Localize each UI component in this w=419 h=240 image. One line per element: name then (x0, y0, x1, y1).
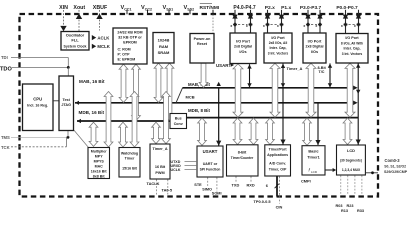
USART block (197, 146, 223, 177)
svg-text:TCK: TCK (1, 145, 10, 150)
svg-text:TACLK: TACLK (147, 181, 160, 186)
pin CIN (278, 177, 280, 204)
svg-text:1024B: 1024B (158, 37, 170, 42)
I/O port P3 block (303, 33, 326, 63)
wire Basic Timer1 to MDB8 (hollow arrow) (303, 118, 312, 145)
bus diagonal MAB16 to MAB4 (176, 88, 183, 103)
svg-text:Timer/Port: Timer/Port (269, 148, 288, 152)
svg-text:8 I/Os, All With: 8 I/Os, All With (341, 41, 363, 45)
Timer_A block (150, 144, 170, 179)
svg-text:Reset: Reset (197, 42, 208, 46)
svg-text:MDB, 8 Bit: MDB, 8 Bit (188, 108, 210, 113)
wire MCB to Basic Timer1 (dark line) (317, 103, 319, 145)
I/O port P1/P2 block (264, 33, 292, 63)
wire USART to MDB8 (hollow arrow) (198, 118, 207, 145)
bus MDB 16-bit line (77, 120, 170, 122)
svg-text:Multiplier: Multiplier (91, 150, 108, 154)
wire LCD to MDB8 (hollow arrow) (343, 118, 352, 145)
LCD R lines (340, 176, 342, 196)
svg-text:SS1: SS1 (166, 7, 173, 11)
svg-text:16 Bit: 16 Bit (155, 165, 166, 169)
svg-text:TDI: TDI (1, 55, 8, 60)
svg-text:UART or: UART or (203, 162, 218, 166)
svg-text:R03: R03 (336, 204, 343, 208)
svg-text:TA0-5: TA0-5 (162, 187, 173, 192)
pin TACLK (155, 180, 157, 196)
svg-text:FLL: FLL (71, 37, 79, 42)
Test JTAG box (59, 76, 74, 131)
svg-text:Incl. 16 Reg.: Incl. 16 Reg. (27, 103, 48, 107)
wire port P0 box to MDB8 (hollow arrow) (345, 63, 355, 117)
svg-text:TXD: TXD (232, 183, 240, 188)
I/O port P0 block (336, 34, 368, 64)
pin SIMO (207, 178, 209, 188)
wire Watchdog to MAB16 (hollow arrow) (130, 92, 139, 148)
svg-text:P: OTP: P: OTP (118, 52, 131, 56)
wire POR to MAB4 (hollow arrow) (199, 63, 208, 87)
svg-text:SRAM: SRAM (158, 50, 170, 55)
oscillator FLL system clock block (61, 32, 89, 51)
svg-text:SOMI: SOMI (212, 192, 222, 196)
svg-text:x: x (341, 24, 343, 28)
svg-text:ACLK: ACLK (97, 35, 110, 40)
svg-text:MDB, 16 Bit: MDB, 16 Bit (79, 110, 105, 115)
svg-text:JTAG: JTAG (61, 103, 71, 107)
svg-text:Timer_A: Timer_A (152, 147, 167, 151)
svg-text:SS2: SS2 (187, 7, 194, 11)
svg-text:C: ROM: C: ROM (118, 47, 131, 51)
svg-text:CC2: CC2 (145, 7, 152, 11)
svg-text:I/O Port: I/O Port (308, 39, 322, 43)
MCLK output (92, 44, 96, 49)
svg-text:SPI Function: SPI Function (200, 167, 221, 171)
svg-text:T/C: T/C (319, 70, 325, 74)
svg-text:TDO: TDO (0, 66, 12, 72)
wire fLCD to LCD (326, 169, 334, 171)
wire bus to USART (dark line with arrows) (218, 88, 220, 146)
svg-text:2x8 Digital: 2x8 Digital (234, 45, 252, 49)
svg-text:1,2,3,4 MUX: 1,2,3,4 MUX (342, 168, 361, 172)
svg-text:MAC: MAC (95, 165, 104, 169)
svg-text:Timer1: Timer1 (307, 155, 319, 159)
svg-text:P2.x: P2.x (265, 5, 275, 11)
wire port P4 box to MAB4 (dark double arrow) (249, 64, 251, 87)
svg-text:P0.0-P0.7: P0.0-P0.7 (336, 5, 358, 11)
svg-text:P3.0-P3.7: P3.0-P3.7 (300, 5, 322, 11)
svg-text:3 Int. Vectors: 3 Int. Vectors (342, 52, 363, 56)
svg-text:2x8 Digital: 2x8 Digital (306, 45, 324, 49)
svg-text:Timer, O/P: Timer, O/P (269, 168, 287, 172)
svg-text:RAM: RAM (159, 44, 169, 49)
svg-text:15/16 Bit: 15/16 Bit (122, 167, 138, 171)
svg-text:Inter. Cap,: Inter. Cap, (270, 46, 287, 50)
wire LCD segment outputs to border (366, 172, 378, 174)
svg-text:R33: R33 (357, 209, 364, 213)
svg-text:LCD: LCD (311, 170, 318, 174)
wire Watchdog to MDB16 (hollow arrow) (119, 122, 128, 147)
svg-text:P4.0-P4.7: P4.0-P4.7 (233, 5, 255, 11)
pin SOMI (216, 178, 218, 192)
wire Timer_A to MDB16 (hollow arrow) (152, 122, 161, 143)
node TMS junction (67, 136, 70, 139)
wire port P1/P2 box to Timer/Port (dark line with arrows) (282, 64, 284, 145)
wire port P3 box to MDB8 (hollow arrow) (306, 63, 316, 117)
svg-text:A/D Conv.: A/D Conv. (269, 161, 286, 165)
svg-text:I/Os: I/Os (239, 50, 246, 54)
svg-text:RST/NMI: RST/NMI (200, 5, 220, 11)
wire RAM to MAB (hollow arrow) (154, 63, 163, 102)
svg-text:Basic: Basic (308, 149, 318, 153)
svg-text:CC1: CC1 (124, 7, 131, 11)
svg-text:P1.x: P1.x (281, 5, 291, 11)
svg-text:(30 Segments): (30 Segments) (340, 159, 362, 163)
svg-text:24/32 KB ROM: 24/32 KB ROM (117, 30, 142, 34)
svg-text:I/O Port: I/O Port (345, 36, 359, 40)
node TDO junction (67, 66, 70, 69)
svg-text:Conv: Conv (174, 122, 183, 126)
svg-text:x: x (263, 24, 265, 28)
svg-text:16x16 Bit: 16x16 Bit (91, 170, 108, 174)
wire port P1/P2 box to MDB8 (hollow arrow) (270, 63, 280, 117)
svg-text:RXD: RXD (247, 183, 255, 188)
svg-text:R23: R23 (347, 204, 354, 208)
svg-text:System Clock: System Clock (64, 44, 87, 48)
wire port P3 box to MAB4 (dark double arrow) (329, 63, 331, 87)
wire port P0 box to LCD (dark line with arrows) (357, 63, 359, 144)
svg-text:x: x (315, 24, 317, 28)
node segment output junction (371, 171, 374, 174)
svg-text:CMPI: CMPI (301, 178, 311, 183)
svg-text:Test: Test (63, 98, 71, 102)
I/O port P4 block (230, 33, 256, 64)
basic timer1 block (302, 146, 325, 175)
svg-text:SIMO: SIMO (202, 187, 212, 191)
wire Multiplier to MDB16 (hollow arrow) (89, 122, 98, 146)
wire ROM to MAB (hollow arrow) (119, 64, 128, 102)
power-on reset block (190, 34, 214, 64)
RAM block (153, 33, 174, 64)
svg-text:8-Bit: 8-Bit (238, 150, 247, 154)
wire 8-bit Timer/Counter to MDB8 (hollow arrow) right (249, 118, 258, 145)
svg-text:STE: STE (194, 183, 202, 187)
svg-text:TP0.0-0.5: TP0.0-0.5 (254, 199, 272, 204)
outer dashed border (device boundary) (20, 14, 379, 197)
svg-text:CPU: CPU (33, 97, 42, 102)
svg-text:x: x (354, 24, 356, 28)
svg-text:EPROM: EPROM (123, 41, 137, 45)
wire port P4 box to MDB8 (hollow arrow) (233, 64, 243, 117)
wire JTAG to Multiplier diagonal (74, 130, 88, 147)
svg-text:Timer: Timer (125, 157, 135, 161)
timer/port block (265, 145, 291, 176)
wire Timer_A to MAB16 (hollow arrow) (162, 92, 171, 144)
wire 8-bit Timer/Counter to MDB8 (hollow arrow) left (233, 118, 242, 145)
svg-text:Applications: Applications (267, 153, 288, 157)
svg-text:Watchdog: Watchdog (121, 151, 138, 155)
svg-text:I/O Port: I/O Port (236, 39, 250, 43)
svg-text:x: x (303, 24, 305, 28)
wire Timer/Port to MDB8 (hollow arrow) (266, 118, 275, 145)
svg-text:MCB: MCB (186, 95, 195, 100)
bus MAB 16-bit / MCB horizontal line (75, 102, 355, 104)
svg-text:USART: USART (216, 63, 231, 68)
svg-text:Com0-3: Com0-3 (385, 158, 401, 163)
svg-text:S29/O29/CMP: S29/O29/CMP (384, 170, 408, 174)
svg-text:I/O Port: I/O Port (271, 36, 285, 40)
pin TXD (235, 177, 237, 183)
svg-text:6: 6 (266, 183, 269, 188)
svg-text:x: x (246, 24, 248, 28)
svg-text:PWM: PWM (155, 171, 164, 175)
svg-text:Timer/Counter: Timer/Counter (231, 156, 254, 160)
CPU box (23, 84, 54, 131)
svg-text:Inter. Cap,: Inter. Cap, (344, 47, 361, 51)
bus converter block (170, 114, 187, 129)
watchdog timer block (119, 148, 140, 178)
svg-text:E: EPROM: E: EPROM (118, 58, 136, 62)
bus MDB 8-bit line (187, 117, 359, 119)
svg-text:Bus: Bus (175, 117, 182, 121)
svg-text:Timer_A: Timer_A (287, 66, 303, 71)
wire RAM to MDB (hollow arrow) (165, 63, 174, 120)
svg-text:USART: USART (203, 149, 218, 154)
wire timer/port to pins (6) (276, 177, 278, 197)
svg-text:MAB, 16 Bit: MAB, 16 Bit (79, 79, 105, 84)
ROM block (113, 28, 147, 64)
wire CPU to JTAG (53, 100, 59, 102)
svg-text:Power-on: Power-on (194, 37, 212, 41)
svg-text:x: x (277, 24, 279, 28)
LCD block (337, 145, 366, 175)
svg-text:MPY: MPY (95, 155, 103, 159)
bus MAB 4-bit line (183, 87, 354, 89)
wire ROM to MDB (hollow arrow) (132, 64, 141, 120)
wire Multiplier to MAB16 (hollow arrow) (104, 92, 113, 148)
svg-text:LCD: LCD (347, 148, 355, 153)
svg-text:MCLK: MCLK (97, 44, 110, 49)
svg-text:I/Os: I/Os (311, 50, 318, 54)
multiplier block (88, 148, 110, 179)
svg-text:UCLK: UCLK (171, 168, 181, 172)
svg-text:R13: R13 (341, 209, 348, 213)
svg-text:MPYS: MPYS (94, 160, 105, 164)
svg-text:XBUF: XBUF (93, 5, 108, 11)
svg-text:CIN: CIN (276, 204, 283, 209)
pin TA0-5 (167, 180, 169, 196)
svg-text:3 Int. Vectors: 3 Int. Vectors (268, 51, 289, 55)
svg-text:TMS: TMS (1, 135, 10, 140)
svg-text:2x8 I/Os, All: 2x8 I/Os, All (269, 41, 288, 45)
ACLK output (92, 35, 96, 40)
pin RXD (250, 177, 252, 183)
svg-text:S0, S1, S2/O2: S0, S1, S2/O2 (384, 164, 406, 168)
svg-text:x: x (230, 24, 232, 28)
8-bit timer/counter block (227, 145, 259, 176)
svg-text:32 KB OTP or: 32 KB OTP or (118, 36, 142, 40)
svg-text:8x8 Bit: 8x8 Bit (93, 175, 106, 179)
